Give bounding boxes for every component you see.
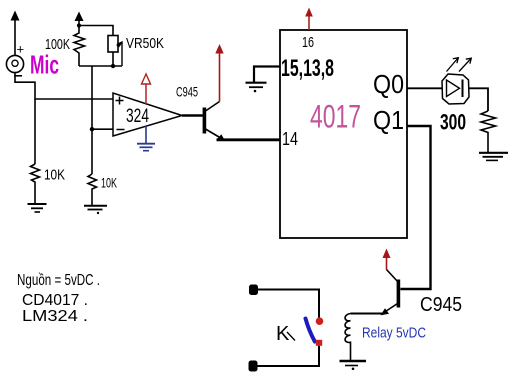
wire mic to op-amp non-inverting input	[15, 73, 113, 99]
svg-text:CD4017 .: CD4017 .	[22, 292, 88, 309]
wire switch top	[257, 290, 319, 318]
resistor 10K (right)	[88, 174, 97, 205]
svg-text:C945: C945	[420, 294, 462, 316]
power arrow (op-amp V+, red outline)	[142, 74, 151, 104]
svg-text:10K: 10K	[101, 175, 117, 191]
svg-text:324: 324	[126, 106, 149, 127]
svg-text:+: +	[17, 42, 25, 57]
wire bias divider down	[91, 66, 93, 174]
switch pivot (red square)	[316, 340, 322, 346]
wire bias bottom rail	[79, 65, 122, 67]
ground (relay)	[340, 361, 367, 370]
switch terminal bottom	[249, 361, 258, 372]
wire Q1 emitter to pin 14	[217, 138, 281, 141]
op-amp U1 LM324	[113, 93, 182, 136]
LED emission arrows	[447, 58, 472, 72]
resistor 300	[481, 111, 496, 152]
svg-text:K: K	[276, 323, 290, 345]
wire mic branch down to 10K	[34, 99, 36, 164]
svg-text:Q1: Q1	[373, 105, 404, 135]
svg-text:LM324 .: LM324 .	[22, 308, 88, 325]
svg-text:16: 16	[302, 34, 314, 51]
svg-text:C945: C945	[176, 84, 198, 100]
transistor Q1 C945	[182, 102, 225, 141]
wire Q2 emitter to relay	[351, 313, 383, 315]
node bias top junction	[77, 23, 81, 27]
svg-text:Mic: Mic	[30, 50, 59, 80]
wire Q1 to Q2 base	[400, 126, 430, 289]
relay coil	[345, 314, 350, 361]
switch lever (blue)	[306, 319, 315, 342]
ground (right 10K)	[84, 206, 107, 214]
ground (LED resistor)	[479, 153, 508, 161]
IC U2 4017 outline	[280, 30, 407, 238]
ground (op-amp, blue)	[137, 126, 155, 151]
node VR bottom junction	[111, 64, 115, 68]
resistor 100K	[74, 26, 85, 67]
power arrow (pin 16, red)	[305, 8, 313, 31]
svg-text:100K: 100K	[45, 36, 70, 53]
wire bias top to VR50K	[79, 26, 113, 36]
LED D1	[442, 74, 469, 104]
resistor 10K (left)	[31, 164, 40, 203]
svg-text:VR50K: VR50K	[126, 35, 164, 52]
switch terminal top	[249, 285, 258, 296]
wire pins 15,13,8 to ground	[254, 67, 280, 83]
svg-text:Q0: Q0	[373, 69, 404, 99]
svg-text:15,13,8: 15,13,8	[281, 55, 334, 82]
node inverting input junction	[90, 127, 94, 131]
power arrow V+ (bias supply)	[75, 12, 84, 26]
wire LED to resistor 300	[469, 88, 488, 111]
potentiometer VR50K	[108, 36, 123, 67]
wire Q0 to LED	[407, 87, 442, 89]
power arrow (Q2 collector, red)	[383, 249, 391, 270]
switch contact (red dot)	[316, 317, 324, 325]
svg-text:Nguồn = 5vDC .: Nguồn = 5vDC .	[17, 272, 100, 289]
svg-text:300: 300	[440, 110, 466, 135]
power arrow (Q1 collector, red)	[215, 44, 223, 102]
microphone MIC	[6, 42, 24, 76]
wire switch bottom	[257, 346, 319, 366]
ground (left 10K)	[28, 204, 47, 212]
svg-text:10K: 10K	[44, 167, 65, 184]
wire to inverting input	[92, 128, 113, 130]
ground (pins 15,13,8)	[246, 83, 267, 93]
svg-text:14: 14	[282, 129, 298, 149]
svg-text:Relay 5vDC: Relay 5vDC	[362, 325, 426, 342]
power arrow V+ (mic supply)	[11, 11, 20, 56]
transistor Q2 C945	[381, 270, 401, 316]
svg-text:4017: 4017	[310, 99, 361, 135]
